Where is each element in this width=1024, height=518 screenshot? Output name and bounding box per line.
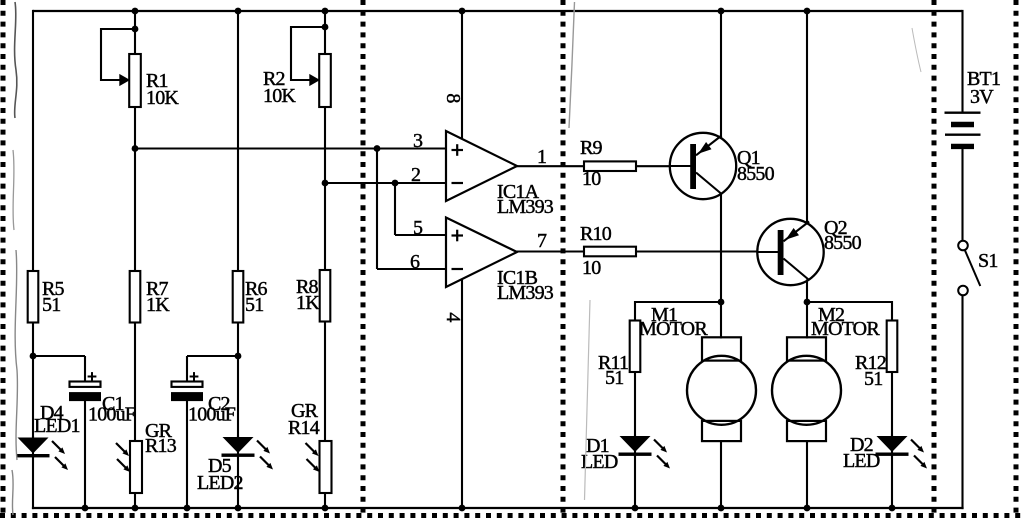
wire switch to ground rail (961, 295, 963, 509)
wire R2 column from top rail (324, 11, 326, 55)
wire C1 to ground rail (84, 400, 86, 510)
wire node to M1 (720, 302, 722, 339)
svg-text:5: 5 (413, 217, 423, 239)
svg-text:51: 51 (864, 368, 882, 390)
svg-text:LED: LED (843, 450, 880, 472)
switch S1 (958, 241, 980, 296)
svg-text:R10: R10 (580, 223, 612, 245)
svg-text:2: 2 (411, 164, 420, 186)
svg-text:100uF: 100uF (188, 404, 236, 426)
wire R2 bottom to node B (324, 106, 326, 272)
op-amp IC1A (446, 131, 517, 201)
wire R1 column from top rail (134, 11, 136, 55)
wire Q2 collector down (806, 280, 808, 303)
svg-text:51: 51 (42, 294, 60, 316)
wire node B to IC1A pin 2 (325, 182, 446, 184)
svg-text:10: 10 (582, 257, 601, 279)
wire node C2 tap (187, 355, 238, 357)
wire Q2 emitter to top rail (806, 11, 808, 225)
svg-text:8550: 8550 (737, 163, 775, 185)
wire bottom ground rail (32, 507, 964, 509)
svg-text:LED1: LED1 (34, 415, 80, 437)
wire left column middle segment (32, 322, 34, 438)
LED D5 (222, 436, 274, 470)
svg-text:7: 7 (537, 230, 547, 252)
potentiometer R1 wiper arrow (119, 74, 130, 86)
resistor R10 (584, 247, 636, 257)
svg-text:LM393: LM393 (497, 196, 554, 218)
resistor R11 (630, 321, 641, 373)
wire M1 to ground rail (720, 440, 722, 509)
wire D1 to ground rail (634, 455, 636, 509)
wire R2 wiper loop (291, 27, 325, 80)
svg-text:51: 51 (605, 367, 623, 389)
wire battery to switch (961, 146, 963, 241)
capacitor C1 (69, 372, 101, 401)
wire IC1B output pin 7 to R10 (516, 250, 584, 252)
resistor R9 (584, 161, 636, 171)
svg-text:6: 6 (410, 251, 420, 273)
svg-text:1K: 1K (296, 292, 320, 314)
wire R14 to ground rail (324, 493, 326, 510)
svg-text:51: 51 (245, 294, 263, 316)
wire left column top segment (32, 10, 34, 272)
wire C2 to ground rail (186, 400, 188, 510)
wire node A branch down (376, 149, 378, 270)
resistor R7 (130, 271, 141, 323)
wire R11 riser (634, 301, 636, 322)
wire D5 to ground rail (237, 456, 239, 509)
photoresistor R14 (306, 441, 332, 493)
svg-text:10: 10 (582, 168, 601, 190)
wire M1 node horizontal (635, 301, 721, 303)
LED D1 (619, 435, 671, 469)
resistor R5 (28, 271, 39, 323)
wire R11 to D1 (634, 372, 636, 436)
svg-text:R13: R13 (145, 435, 177, 457)
transistor Q1 (670, 133, 736, 199)
wire IC1A output pin 1 to R9 (516, 165, 584, 167)
wire IC pin 8 from top rail (461, 11, 463, 140)
wire middle column R6 from top rail (237, 11, 239, 272)
photoresistor R13 (116, 441, 142, 493)
wire to IC1B pin 5 (395, 234, 446, 236)
svg-text:100uF: 100uF (88, 404, 136, 426)
svg-text:10K: 10K (146, 87, 179, 109)
svg-text:S1: S1 (978, 250, 998, 272)
svg-text:R14: R14 (288, 417, 320, 439)
wire R13 to ground rail (134, 493, 136, 510)
motor M1 (687, 337, 756, 441)
wire M2 to ground rail (806, 440, 808, 509)
wire node A to C1 tap (33, 355, 85, 357)
wire R10 to Q2 base (636, 250, 758, 252)
transistor Q2 (757, 219, 823, 285)
svg-text:8: 8 (442, 93, 464, 103)
svg-text:10K: 10K (263, 85, 296, 107)
wire node A to IC1A pin 3 (134, 147, 446, 149)
svg-text:3: 3 (413, 130, 423, 152)
resistor R6 (233, 271, 244, 323)
wire node to M2 (806, 302, 808, 339)
wire R6 bottom through node to D5 (237, 322, 239, 437)
svg-text:8550: 8550 (824, 232, 862, 254)
svg-text:MOTOR: MOTOR (811, 318, 880, 340)
LED D4 (17, 436, 69, 470)
wire R7 to R13 (134, 322, 136, 442)
wire Q1 emitter to top rail (720, 11, 722, 139)
wire M2 node horizontal (807, 301, 892, 303)
potentiometer R2 wiper arrow (309, 74, 320, 86)
capacitor C2 (171, 372, 203, 401)
wire top supply rail (33, 10, 962, 12)
potentiometer R2 body (319, 54, 331, 107)
wire left column bottom segment (32, 456, 34, 509)
resistor R8 (320, 270, 331, 322)
wire R12 riser (891, 301, 893, 322)
wire to IC1B pin 6 (377, 268, 446, 270)
svg-text:3V: 3V (970, 86, 994, 108)
LED D2 (876, 435, 928, 469)
wire R8 to R14 (324, 322, 326, 442)
wire battery column from top rail (961, 10, 963, 113)
battery BT1 (945, 113, 981, 147)
svg-text:R9: R9 (580, 137, 603, 159)
wire C2 drop (186, 356, 188, 383)
wire R9 to Q1 base (636, 165, 671, 167)
resistor R12 (887, 321, 898, 373)
svg-text:4: 4 (442, 312, 464, 322)
wire R12 to D2 (891, 372, 893, 436)
svg-text:LM393: LM393 (497, 282, 554, 304)
potentiometer R1 body (129, 54, 141, 107)
svg-text:LED2: LED2 (197, 472, 243, 494)
wire D2 to ground rail (891, 455, 893, 509)
motor M2 (772, 337, 841, 441)
wire node B branch down (394, 183, 396, 235)
svg-text:1K: 1K (146, 294, 170, 316)
op-amp IC1B (446, 218, 517, 288)
wire R1 wiper loop (101, 29, 135, 80)
svg-text:MOTOR: MOTOR (639, 318, 708, 340)
wire IC pin 4 to ground rail (461, 276, 463, 508)
wire C1 drop (84, 356, 86, 383)
svg-text:1: 1 (537, 146, 546, 168)
wire Q1 collector down (720, 194, 722, 303)
svg-text:LED: LED (581, 451, 618, 473)
wire R1 bottom to node A (134, 106, 136, 272)
